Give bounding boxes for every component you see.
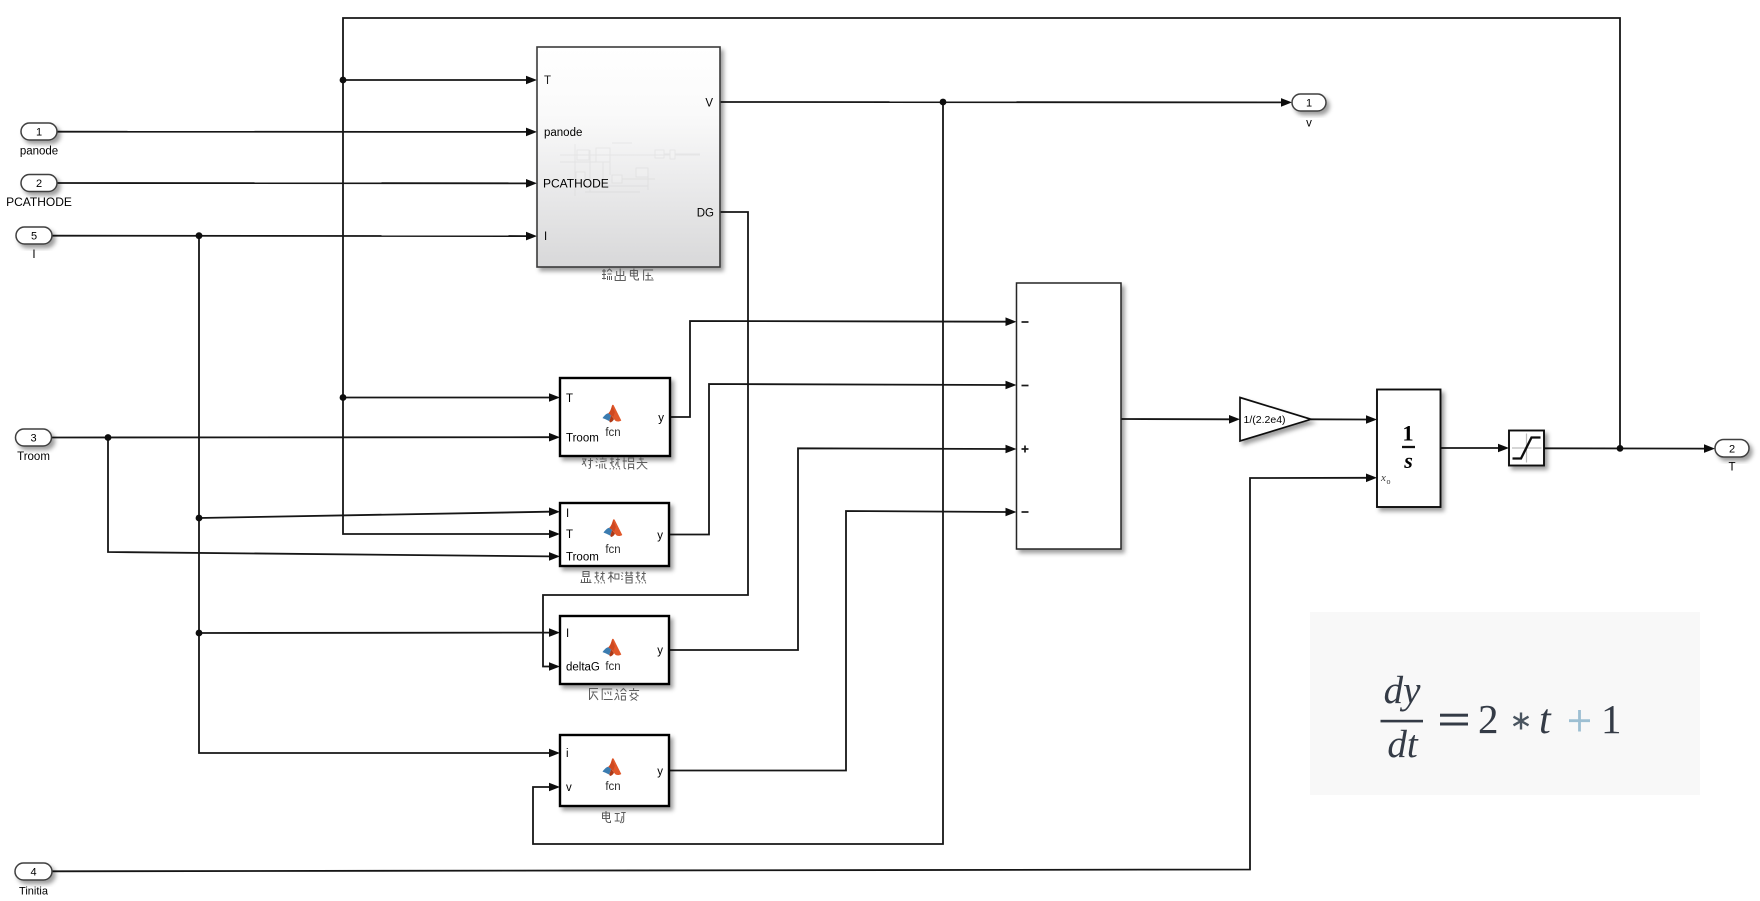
wire fcn4 y to sum input 4 bbox=[669, 511, 1006, 771]
arrowhead into subsystem T bbox=[526, 76, 537, 85]
arrowhead into integrator x0 bbox=[1366, 474, 1377, 483]
arrowhead into sum input 4 bbox=[1006, 508, 1017, 517]
wire DG to deltaG bbox=[543, 212, 748, 667]
svg-text:5: 5 bbox=[31, 231, 37, 243]
inport 3 Troom bbox=[16, 429, 52, 463]
arrowhead into integrator bbox=[1366, 415, 1377, 424]
arrowhead into sum input 1 bbox=[1006, 317, 1017, 326]
wire saturation to outport T bbox=[1544, 447, 1705, 449]
svg-text:PCATHODE: PCATHODE bbox=[6, 195, 72, 209]
svg-text:1: 1 bbox=[36, 127, 42, 139]
svg-text:y: y bbox=[658, 413, 664, 425]
saturation block bbox=[1509, 431, 1544, 466]
junction dot at T wire fcn1 bbox=[340, 394, 347, 401]
annotation formula dy/dt = 2*t+1 bbox=[1381, 669, 1622, 766]
svg-text:PCATHODE: PCATHODE bbox=[543, 177, 609, 191]
function block fcn3 反应焓变 bbox=[560, 616, 669, 684]
svg-text:I: I bbox=[566, 508, 569, 520]
svg-text:Troom: Troom bbox=[566, 552, 599, 564]
wire Troom branch to fcn2 bbox=[108, 438, 550, 557]
function block fcn2 显热和潜热 bbox=[560, 503, 669, 566]
svg-text:1: 1 bbox=[1306, 98, 1312, 110]
wire V branch down to fcn4 v input bbox=[533, 102, 943, 844]
function block fcn4 电功 bbox=[560, 735, 669, 806]
svg-text:1: 1 bbox=[1601, 696, 1622, 742]
wire fcn2 y to sum input 2 bbox=[669, 384, 1006, 535]
arrowhead into sum input 3 bbox=[1006, 445, 1017, 454]
svg-text:Troom: Troom bbox=[17, 451, 50, 463]
svg-text:fcn: fcn bbox=[605, 544, 620, 556]
svg-text:dy: dy bbox=[1384, 669, 1422, 712]
junction dot at T output wire bbox=[1617, 445, 1624, 452]
junction dot at I to fcn2 bbox=[196, 515, 203, 522]
outport 1 v bbox=[1292, 94, 1326, 130]
svg-text:2: 2 bbox=[1478, 696, 1499, 742]
arrowhead into fcn2 Troom bbox=[549, 552, 560, 561]
svg-text:fcn: fcn bbox=[605, 661, 620, 673]
svg-text:y: y bbox=[657, 766, 663, 778]
svg-text:x: x bbox=[1380, 472, 1386, 484]
svg-text:panode: panode bbox=[544, 127, 582, 139]
inport 1 panode bbox=[20, 123, 58, 158]
wire Tinitia to integrator x0 bbox=[52, 478, 1367, 872]
subsystem 输出电压 bbox=[537, 47, 720, 267]
inport 2 PCATHODE bbox=[6, 175, 72, 210]
svg-text:t: t bbox=[1539, 697, 1552, 743]
svg-text:v: v bbox=[566, 782, 572, 794]
svg-text:Troom: Troom bbox=[566, 433, 599, 445]
caption 输出电压 bbox=[602, 269, 654, 281]
arrowhead into gain bbox=[1229, 415, 1240, 424]
svg-text:y: y bbox=[657, 530, 663, 542]
svg-text:T: T bbox=[566, 393, 573, 405]
wire I to fcn2 bbox=[199, 512, 550, 518]
arrowhead into fcn4 v bbox=[549, 783, 560, 792]
wire V output to outport v bbox=[720, 101, 1282, 103]
wire I to fcn3 bbox=[199, 632, 550, 634]
gain 1/(2.2e4) bbox=[1240, 398, 1311, 442]
caption 电功 bbox=[603, 811, 626, 823]
svg-text:4: 4 bbox=[30, 867, 36, 879]
wire feedback T loop (saturation output to top and down left) bbox=[343, 18, 1620, 534]
svg-text:panode: panode bbox=[20, 146, 58, 158]
svg-text:s: s bbox=[1403, 448, 1413, 473]
svg-text:V: V bbox=[705, 98, 713, 110]
svg-text:Tinitia: Tinitia bbox=[19, 886, 49, 898]
junction dot at Troom wire bbox=[105, 434, 112, 441]
wire PCATHODE bbox=[57, 182, 527, 184]
svg-text:T: T bbox=[566, 529, 573, 541]
wire integrator to saturation bbox=[1441, 447, 1499, 449]
arrowhead into sum input 2 bbox=[1006, 381, 1017, 390]
arrowhead into fcn4 i bbox=[549, 749, 560, 758]
wire I main bbox=[52, 235, 527, 237]
arrowhead into subsystem I bbox=[526, 232, 537, 241]
annotation background patch bbox=[1310, 612, 1700, 795]
outport 2 T bbox=[1715, 440, 1749, 474]
arrowhead into subsystem panode bbox=[526, 128, 537, 137]
junction dot at T wire subsystem bbox=[340, 77, 347, 84]
svg-text:2: 2 bbox=[36, 178, 42, 190]
inport 5 I bbox=[16, 227, 52, 261]
svg-text:I: I bbox=[566, 628, 569, 640]
arrowhead into outport v bbox=[1281, 98, 1292, 107]
svg-text:dt: dt bbox=[1387, 723, 1419, 766]
arrowhead into saturation bbox=[1498, 444, 1509, 453]
svg-text:2: 2 bbox=[1729, 444, 1735, 456]
svg-text:1: 1 bbox=[1402, 421, 1413, 446]
svg-text:T: T bbox=[544, 75, 551, 87]
wire Troom to fcn1 bbox=[51, 436, 550, 438]
svg-text:I: I bbox=[544, 231, 547, 243]
wire gain to integrator bbox=[1311, 418, 1367, 420]
svg-text:deltaG: deltaG bbox=[566, 662, 600, 674]
function block fcn1 对流热损失 bbox=[560, 378, 670, 456]
inport 4 Tinitia bbox=[15, 863, 52, 898]
arrowhead into subsystem PCATHODE bbox=[526, 179, 537, 188]
svg-text:1/(2.2e4): 1/(2.2e4) bbox=[1244, 414, 1286, 426]
arrowhead into fcn2 T bbox=[549, 530, 560, 539]
caption 对流热损失 bbox=[582, 457, 647, 470]
wire fcn1 y to sum input 1 bbox=[670, 321, 1006, 417]
svg-text:3: 3 bbox=[30, 433, 36, 445]
junction dot at V wire bbox=[940, 99, 947, 106]
svg-text:i: i bbox=[566, 748, 569, 760]
svg-text:DG: DG bbox=[697, 208, 714, 220]
svg-text:y: y bbox=[657, 645, 663, 657]
svg-text:I: I bbox=[32, 249, 35, 261]
caption 显热和潜热 bbox=[581, 572, 646, 584]
arrowhead into fcn2 I bbox=[549, 507, 560, 516]
arrowhead into fcn1 T bbox=[549, 393, 560, 402]
arrowhead into fcn3 deltaG bbox=[549, 662, 560, 671]
arrowhead into fcn1 Troom bbox=[549, 433, 560, 442]
arrowhead into outport T bbox=[1704, 444, 1715, 453]
arrowhead into fcn3 I bbox=[549, 628, 560, 637]
wire panode bbox=[57, 131, 527, 133]
svg-text:T: T bbox=[1728, 462, 1735, 474]
wire fcn3 y to sum input 3 bbox=[669, 448, 1006, 650]
wire T into fcn1 bbox=[343, 397, 550, 399]
junction dot at I wire main bbox=[196, 232, 203, 239]
svg-text:o: o bbox=[1387, 477, 1391, 486]
svg-text:v: v bbox=[1306, 118, 1312, 130]
svg-text:fcn: fcn bbox=[605, 427, 620, 439]
wire I vertical branch bbox=[199, 236, 550, 753]
junction dot at I to fcn3 bbox=[196, 630, 203, 637]
integrator 1/s bbox=[1377, 390, 1441, 508]
wire sum to gain bbox=[1121, 418, 1230, 420]
svg-text:fcn: fcn bbox=[605, 781, 620, 793]
caption 反应焓变 bbox=[589, 688, 639, 701]
wire T into subsystem bbox=[343, 79, 527, 81]
sum block bbox=[1017, 283, 1122, 549]
